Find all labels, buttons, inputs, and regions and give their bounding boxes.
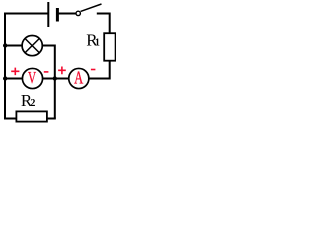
resistor R1 body	[104, 33, 115, 61]
voltmeter + mark	[11, 68, 19, 76]
ammeter A circle	[69, 68, 89, 88]
wire: bottom right segment into R2	[47, 118, 56, 120]
lamp circle	[22, 36, 42, 56]
node: left edge / voltmeter junction	[3, 76, 7, 80]
battery long plate (+)	[47, 2, 49, 27]
wire: voltmeter left to left edge	[5, 78, 23, 80]
wire: left vertical edge	[4, 13, 6, 119]
svg-text:1: 1	[95, 38, 100, 49]
node: left edge / lamp junction	[3, 43, 7, 47]
wire: switch fixed contact to top-right corner and down to R1	[97, 14, 110, 34]
wire: lamp right, corner, vertical down to bottom	[42, 46, 54, 119]
lamp X cross	[25, 39, 39, 53]
node: middle junction between meters	[53, 76, 57, 80]
wire: ammeter left to junction to voltmeter right	[43, 78, 69, 80]
wire: battery to switch	[57, 13, 76, 15]
svg-text:2: 2	[30, 98, 35, 109]
wire: bottom left segment from R2 to left edge	[4, 118, 16, 120]
voltmeter - mark	[44, 71, 49, 73]
voltmeter V circle	[22, 68, 42, 88]
svg-text:V: V	[28, 69, 37, 88]
switch pivot contact circle	[76, 11, 80, 15]
svg-text:A: A	[74, 69, 83, 89]
switch lever (open)	[81, 4, 102, 11]
wire: R1 bottom down and left to ammeter	[89, 61, 110, 79]
wire: left edge to lamp	[5, 45, 22, 47]
battery short thick plate (-)	[56, 8, 59, 22]
wire: top-left horizontal from corner to battery	[5, 13, 48, 15]
resistor R2 body	[16, 111, 47, 121]
ammeter - mark	[91, 69, 96, 71]
ammeter + mark	[58, 67, 66, 75]
